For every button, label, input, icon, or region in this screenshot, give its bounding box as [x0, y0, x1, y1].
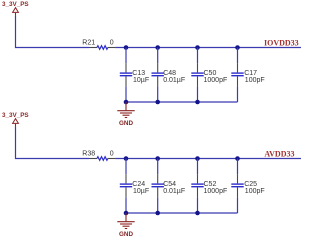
- svg-text:1000pF: 1000pF: [204, 77, 228, 84]
- svg-text:100pF: 100pF: [245, 77, 265, 84]
- svg-text:1000pF: 1000pF: [204, 188, 228, 195]
- junction node on top rail at C13: [124, 45, 129, 50]
- junction node on top rail at C50: [195, 45, 200, 50]
- junction node on bottom rail at GND: [124, 100, 129, 105]
- svg-text:0: 0: [110, 40, 114, 47]
- resistor R21: [82, 40, 115, 50]
- junction node on AVDD rail at C54: [155, 156, 160, 161]
- power symbol 3_3V_PS (bottom): [2, 112, 29, 127]
- junction node on AVDD rail at C52: [195, 156, 200, 161]
- svg-text:0: 0: [110, 151, 114, 158]
- capacitor C13: [120, 48, 149, 103]
- power symbol 3_3V_PS (top): [2, 1, 29, 16]
- wire from power to resistor R21: [16, 16, 90, 48]
- svg-text:0.01µF: 0.01µF: [163, 77, 185, 84]
- capacitor C54: [152, 159, 186, 214]
- svg-text:AVDD33: AVDD33: [264, 150, 294, 159]
- resistor R38: [82, 151, 115, 161]
- ground GND (bottom section): [117, 213, 134, 238]
- wire top rail AVDD33: [115, 158, 301, 160]
- wire bottom rail (top section): [126, 101, 238, 103]
- net label IOVDD33: [264, 39, 299, 48]
- net label AVDD33: [264, 150, 294, 159]
- junction node on bottom rail at C48: [155, 100, 160, 105]
- svg-text:GND: GND: [119, 120, 133, 127]
- svg-text:GND: GND: [119, 231, 133, 238]
- wire bottom rail (bottom section): [126, 212, 238, 214]
- capacitor C24: [120, 159, 149, 214]
- junction node on bottom rail at C52: [195, 211, 200, 216]
- junction node on AVDD rail at C25: [235, 156, 240, 161]
- svg-text:IOVDD33: IOVDD33: [264, 39, 299, 48]
- svg-text:R38: R38: [82, 151, 95, 158]
- wire from power to resistor R38: [16, 127, 90, 159]
- capacitor C52: [191, 159, 227, 214]
- capacitor C50: [191, 48, 227, 103]
- junction node on bottom rail at GND (bottom): [124, 211, 129, 216]
- ground GND (top section): [117, 102, 134, 127]
- svg-text:R21: R21: [82, 40, 95, 47]
- capacitor C17: [231, 48, 264, 103]
- svg-text:100pF: 100pF: [245, 188, 265, 195]
- svg-text:0.01µF: 0.01µF: [163, 188, 185, 195]
- junction node on top rail at C48: [155, 45, 160, 50]
- junction node on AVDD rail at C24: [124, 156, 129, 161]
- wire top rail IOVDD33: [115, 47, 301, 49]
- svg-text:10µF: 10µF: [133, 77, 149, 84]
- svg-text:10µF: 10µF: [133, 188, 149, 195]
- junction node on top rail at C17: [235, 45, 240, 50]
- junction node on bottom rail at C50: [195, 100, 200, 105]
- capacitor C25: [231, 159, 264, 214]
- junction node on bottom rail at C54: [155, 211, 160, 216]
- capacitor C48: [152, 48, 186, 103]
